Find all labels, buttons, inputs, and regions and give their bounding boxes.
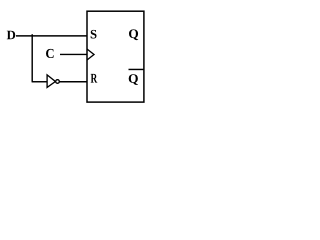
pin label Q [129,29,138,40]
pin label Q-bar overbar line [129,68,145,70]
D input label [7,31,15,40]
inverter U2 output bubble [56,80,60,84]
node: junction tick on D wire [31,34,33,36]
inverter U2 triangle [47,75,55,88]
C clock label [46,49,54,58]
wire: bottom horizontal into inverter input [32,81,48,83]
wire: C clock horizontal to clock pin [60,53,87,55]
wire: vertical branch from D wire down to inverter input [31,36,33,82]
clock edge-trigger chevron inside box [87,49,94,60]
background [0,0,157,121]
pin label R [91,74,98,83]
pin label Q-bar glyph [129,74,138,85]
pin label S [91,30,97,39]
wire: inverter output to R pin [59,81,87,83]
wire: D input horizontal to S pin [16,35,87,37]
flip-flop box U1 [87,11,144,102]
